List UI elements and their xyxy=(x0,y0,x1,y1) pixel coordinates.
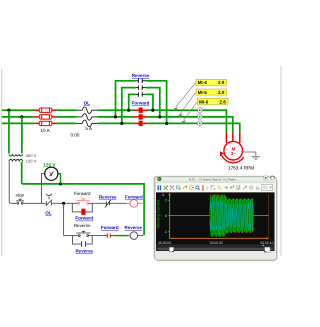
Forward aux contact (closed, red) xyxy=(79,209,88,215)
svg-text:Forward: Forward xyxy=(125,195,143,200)
svg-text:Reverse: Reverse xyxy=(125,225,143,230)
svg-text:1763.4 RPM: 1763.4 RPM xyxy=(228,165,254,170)
node voltmeter tap xyxy=(59,182,62,185)
fuse F2 10A leads xyxy=(33,116,56,118)
plot area background xyxy=(156,192,275,250)
svg-text:Winding Current: Winding Current xyxy=(155,199,160,229)
current probe MI-5 xyxy=(198,115,203,120)
scrollbar marker left xyxy=(169,247,174,252)
fuse F3 10A leads xyxy=(33,122,56,124)
pushbutton Forward (NO, pressed red) xyxy=(77,199,90,204)
svg-text:RJC - (3 phase Motor) : N_Pl: RJC - (3 phase Motor) : N_Plotter xyxy=(189,177,236,181)
scrollbar band xyxy=(156,244,275,251)
instrument label MI-5 xyxy=(196,89,227,95)
scrollbar marker right xyxy=(265,247,271,252)
plot zero line xyxy=(170,215,269,217)
svg-text:460 V: 460 V xyxy=(26,153,37,158)
leader line MI-6 xyxy=(182,101,197,123)
svg-text:2.8: 2.8 xyxy=(218,80,225,85)
junction node J3 xyxy=(114,115,117,118)
canvas left border xyxy=(1,69,3,256)
svg-text:stop: stop xyxy=(16,192,25,197)
wire L3 bus segments xyxy=(2,122,197,124)
current probe MI-4 xyxy=(198,108,203,113)
coil Reverse (de-energized) xyxy=(130,232,138,240)
wire energized segment to Reverse coil xyxy=(115,235,128,237)
plot right boundary line xyxy=(268,195,270,239)
waveform start caps (dark red) xyxy=(211,194,225,197)
plotter window frame xyxy=(154,176,276,260)
svg-text:00:00:00: 00:00:00 xyxy=(158,241,171,245)
svg-text:10 A: 10 A xyxy=(40,128,50,133)
svg-text:Reverse: Reverse xyxy=(99,195,117,200)
svg-text:Reverse: Reverse xyxy=(132,73,150,78)
motor rotation arrow xyxy=(220,152,243,163)
motor lead T1 (red) xyxy=(225,133,227,143)
svg-text:3~: 3~ xyxy=(231,151,236,156)
svg-text:MI-5: MI-5 xyxy=(198,90,208,95)
svg-text:Forward: Forward xyxy=(74,191,91,196)
toolbar icons xyxy=(157,185,259,190)
wire L2 bus segments xyxy=(2,116,197,118)
svg-text:00:00:05: 00:00:05 xyxy=(210,241,223,245)
plot y axis (green) xyxy=(169,195,171,239)
ground symbol xyxy=(252,156,261,159)
waveform traces xyxy=(210,194,254,236)
waveform peak dots xyxy=(227,199,253,233)
fuse F3 body xyxy=(39,121,52,125)
svg-text:MI-6: MI-6 xyxy=(199,99,209,104)
Reverse contactor contact R1 (open) xyxy=(136,79,146,83)
overload heater OL3 xyxy=(77,120,98,127)
Reverse contactor contact R3 (open) xyxy=(136,92,146,96)
svg-text:MI-4: MI-4 xyxy=(198,80,208,85)
leader line MI-5 xyxy=(179,92,196,117)
wire rail row1 to row2 xyxy=(63,203,65,235)
leader line MI-4 xyxy=(174,82,196,110)
plot y labels xyxy=(164,199,167,234)
overload heater OL1 xyxy=(77,107,98,114)
wire voltmeter right lead (green) xyxy=(58,174,61,184)
y axis ticks xyxy=(168,200,170,231)
junction node J7 xyxy=(158,115,161,118)
svg-text:2.8: 2.8 xyxy=(219,99,226,104)
wire Forward coil to rail xyxy=(138,202,144,204)
svg-text:0: 0 xyxy=(165,214,167,218)
svg-text:Reverse: Reverse xyxy=(75,249,93,254)
coil Forward (energized) xyxy=(130,200,138,208)
svg-text:1: 1 xyxy=(165,199,167,203)
plotter toolbar xyxy=(156,183,275,192)
fuse F1 10A leads xyxy=(33,109,56,111)
motor lead T2 (red) xyxy=(232,133,234,142)
wire rail to reverse button xyxy=(64,235,79,237)
wire L1 tap to transformer primary xyxy=(8,110,10,153)
svg-text:0:00: 0:00 xyxy=(71,132,80,137)
plotter window shadow edge xyxy=(155,177,277,261)
junction node J2 xyxy=(20,115,23,118)
wire L2 to motor xyxy=(202,117,233,133)
fuse F1 body xyxy=(39,108,52,112)
svg-text:Forward: Forward xyxy=(75,216,93,221)
wire motor to ground xyxy=(243,152,256,156)
Reverse aux contact (open) xyxy=(82,241,86,247)
plot x axis (orange) xyxy=(169,237,266,239)
wire to Forward coil xyxy=(110,202,127,204)
scrollbar orange marker xyxy=(262,245,264,247)
instrument label MI-6 xyxy=(197,98,228,104)
canvas right border xyxy=(280,66,282,256)
junction node J4 xyxy=(120,122,123,125)
pushbutton stop (NC) xyxy=(16,199,24,204)
OL NC contact with thermal release xyxy=(46,194,52,206)
Forward contactor main contact F2 (closed, red) xyxy=(134,114,148,119)
wire stop to OL contact xyxy=(23,202,46,204)
wire L3 to motor xyxy=(202,123,240,132)
svg-text:2.8: 2.8 xyxy=(218,90,225,95)
svg-text:5 A: 5 A xyxy=(85,126,93,131)
junction node J1 xyxy=(7,109,10,112)
wire reverse seal-in branch xyxy=(73,236,93,245)
wire reverse loop R2 xyxy=(122,88,160,124)
svg-text:Reverse: Reverse xyxy=(74,223,91,228)
svg-text:120 V: 120 V xyxy=(26,158,37,163)
wire reverse loop R3 xyxy=(129,94,153,110)
voltmeter V1 xyxy=(45,167,58,180)
wire forward seal-in branch xyxy=(72,203,92,212)
instrument label MI-4 xyxy=(196,79,227,85)
overload heater OL2 xyxy=(77,114,98,121)
Reverse contactor contact R2 (open) xyxy=(136,85,146,89)
svg-text:120 V: 120 V xyxy=(43,162,56,167)
svg-text:OL: OL xyxy=(84,100,91,105)
wire L1 to motor xyxy=(202,110,226,132)
junction node J8 xyxy=(165,122,168,125)
transformer T1 secondary winding xyxy=(9,159,23,161)
plot time labels xyxy=(158,241,274,245)
fuse F2 body xyxy=(39,115,52,119)
junction node J6 xyxy=(151,109,154,112)
plotter title buttons xyxy=(263,176,274,180)
wire L2 tap to transformer primary xyxy=(21,117,23,153)
y axis top arrow xyxy=(168,193,171,196)
Reverse NC interlock contact xyxy=(105,200,111,208)
toolbar combo box xyxy=(262,185,273,191)
wire OL to forward branch xyxy=(52,202,78,204)
motor M1 3-phase xyxy=(224,141,243,160)
svg-text:OL: OL xyxy=(45,211,52,216)
motor lead T3 (red) xyxy=(239,133,241,143)
svg-text:-1: -1 xyxy=(164,230,167,234)
wire forward btn to Reverse NC contact xyxy=(89,202,106,204)
wire voltmeter left lead xyxy=(42,174,45,204)
node row1/row2 rail junction xyxy=(62,202,65,205)
wire reverse loop R1 xyxy=(116,81,167,124)
wire reverse btn to Forward NC contact xyxy=(89,235,105,237)
svg-text:Forward: Forward xyxy=(132,101,150,106)
svg-text:00:00:10: 00:00:10 xyxy=(260,241,273,245)
Forward contactor main contact F3 (closed, red) xyxy=(134,121,148,126)
wire secondary right (hot, green) xyxy=(21,162,23,184)
wire L1 bus segments xyxy=(2,109,197,111)
plotter title bar icon xyxy=(158,177,162,181)
svg-text:Forward: Forward xyxy=(101,225,119,230)
Forward contactor main contact F1 (closed, red) xyxy=(134,108,148,113)
wire Reverse coil to rail xyxy=(138,235,144,237)
wire secondary left to stop row xyxy=(9,162,16,204)
junction node J5 xyxy=(127,109,130,112)
pushbutton Reverse (NO) xyxy=(77,231,91,236)
current probe MI-6 xyxy=(198,121,203,126)
Forward NC interlock contact (actuated, red) xyxy=(105,234,116,238)
wire 120V control bus xyxy=(22,184,144,235)
transformer T1 primary winding xyxy=(9,154,23,156)
